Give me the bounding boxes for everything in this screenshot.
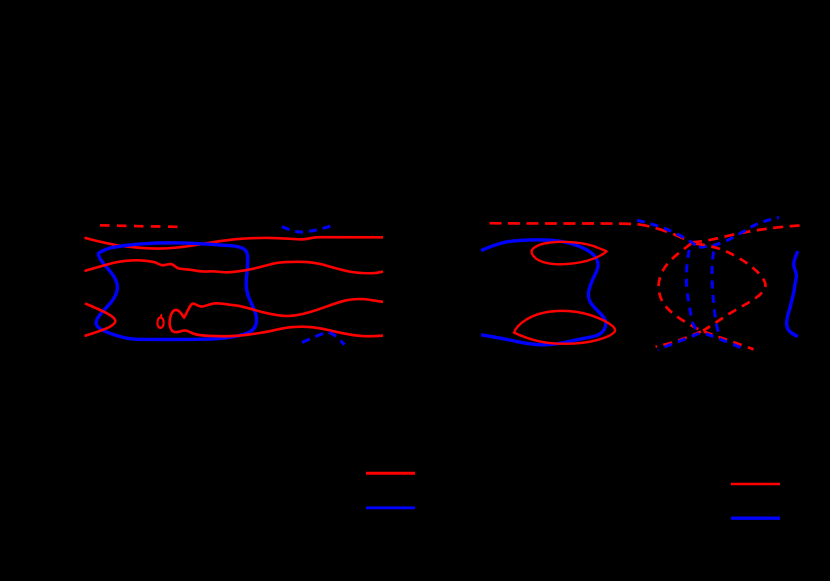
right panel: blue solid open contour (left, S-shaped with bottom hook) bbox=[481, 240, 606, 345]
right panel: blue solid wavy vertical contour (far right) bbox=[787, 251, 798, 336]
left panel: blue solid closed blob contour bbox=[96, 243, 256, 340]
right panel: blue dashed inner vertical line (east) bbox=[712, 252, 718, 333]
right panel: red dashed contour, northeast branch from saddle bbox=[692, 226, 800, 243]
right panel: red solid lens contour (lower) bbox=[514, 311, 615, 344]
left panel: red dashed contour segment (top) bbox=[100, 225, 178, 227]
right panel: blue dashed contour, northeast branch bbox=[699, 218, 779, 248]
left panel: red solid wavy contour line 2 (middle) bbox=[85, 260, 384, 273]
right panel: blue dashed contour, northwest branch to saddle bbox=[637, 220, 697, 246]
right panel: red dashed contour, top line west branch to saddle bbox=[490, 223, 693, 242]
right panel: red solid lens contour (upper) bbox=[532, 242, 607, 264]
left panel: tiny red contour ring bbox=[157, 314, 163, 328]
right panel: red dashed right-bulging arc (saddle to bottom node) bbox=[696, 244, 766, 331]
left panel: blue dashed V contour (top) bbox=[282, 224, 336, 232]
right panel: blue dashed southwest tail from bottom node bbox=[658, 333, 699, 350]
right panel: red dashed left-bulging arc (saddle to bottom node) bbox=[659, 244, 702, 331]
right panel: red dashed southeast tail from bottom node bbox=[704, 332, 754, 350]
legend 2: blue solid sample line bbox=[731, 517, 780, 520]
legend 1: blue solid sample line bbox=[366, 506, 415, 509]
left panel: red pinched double-wave contour (lower middle, open right) bbox=[170, 299, 383, 336]
left panel: red solid contour line 1 (upper) bbox=[85, 237, 384, 248]
right panel: blue dashed southeast tail from bottom node bbox=[706, 334, 744, 349]
legend 2: red solid sample line bbox=[731, 483, 780, 485]
right panel: blue dashed inner vertical line (west) bbox=[686, 250, 698, 331]
legend 1: red solid sample line bbox=[366, 472, 415, 475]
right panel: red dashed southwest tail from bottom node bbox=[656, 332, 702, 347]
left panel: red open hook contour (left edge) bbox=[85, 303, 116, 336]
left panel: blue dashed peak contour (bottom) bbox=[302, 332, 345, 345]
